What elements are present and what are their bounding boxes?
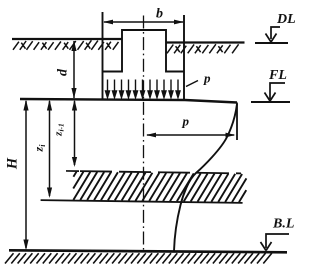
weak soil layer band: bottom edge (41, 200, 243, 203)
dimension d (56, 41, 77, 99)
centerline of foundation (143, 16, 145, 252)
svg-text:b: b (156, 7, 163, 22)
bottom hatch (5, 253, 272, 263)
svg-text:B.L: B.L (272, 217, 294, 232)
weak soil layer band: top edge (66, 171, 241, 173)
weak soil layer band: hatching (73, 172, 246, 203)
svg-text:d: d (56, 68, 71, 76)
ground line right (DL level) (166, 43, 245, 54)
leader and label p (base pressure) (186, 71, 211, 87)
soil hatch right (167, 44, 239, 53)
svg-text:p: p (203, 71, 211, 86)
ground line left (DL level) (12, 39, 122, 50)
dimension z_i-1 (53, 100, 78, 168)
DL level marker (255, 12, 296, 43)
dimension H (5, 100, 29, 251)
svg-text:DL: DL (276, 12, 296, 27)
foundation outline (column, steps, footing edges) (103, 13, 185, 100)
FL level marker (251, 68, 290, 102)
svg-text:H: H (5, 157, 21, 170)
lateral arrow with label p (stress at depth) (146, 114, 236, 138)
dimension z_i (32, 100, 53, 199)
bottom boundary line (B.L) (9, 250, 287, 252)
vertical start of pressure-bulb construction (236, 103, 238, 141)
soil hatch left (13, 40, 119, 50)
svg-text:FL: FL (268, 68, 287, 83)
FL / footing base line (20, 99, 237, 103)
svg-text:zi: zi (32, 144, 47, 153)
svg-text:zi-1: zi-1 (53, 123, 66, 137)
base pressure arrows p (106, 80, 181, 98)
svg-text:p: p (182, 114, 190, 129)
dimension b (103, 7, 184, 25)
B.L level marker (261, 217, 295, 251)
stress distribution curve (174, 104, 237, 251)
